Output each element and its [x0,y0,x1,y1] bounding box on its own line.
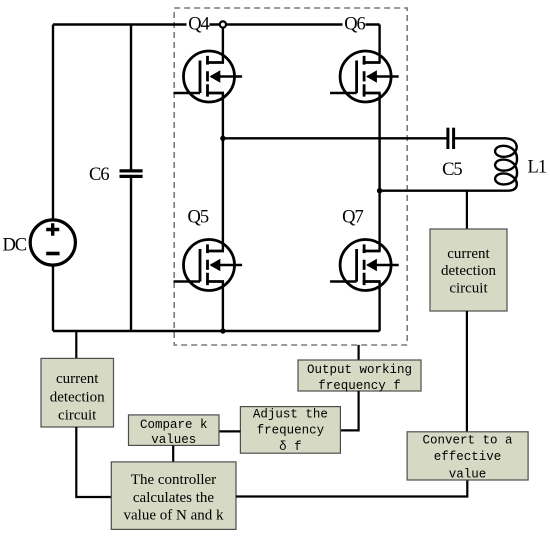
wire Q5 drain [222,138,224,251]
svg-text:Q5: Q5 [187,207,208,227]
wire Q7 source [378,282,380,332]
svg-text:detection: detection [441,263,496,279]
box current detection circuit (right) [430,229,507,311]
svg-text:Q6: Q6 [344,14,365,34]
svg-text:circuit: circuit [449,281,488,297]
box Convert to a effective value [407,432,528,482]
box The controller calculates [111,462,236,530]
dashed inverter bridge box [174,8,407,345]
svg-text:detection: detection [50,389,105,405]
junction node mid left [220,136,225,141]
svg-text:L1: L1 [528,158,547,178]
wire right detection box to convert box [466,311,468,432]
svg-text:current: current [447,246,490,262]
wire mid rail to C5 [223,137,448,139]
wire Q6 source to Q7 drain [378,93,380,251]
svg-text:value: value [449,467,487,481]
inductor L1 [380,138,517,190]
svg-text:C5: C5 [442,160,462,180]
svg-text:values: values [151,433,196,447]
svg-text:value of N and k: value of N and k [124,508,224,524]
svg-text:frequency f: frequency f [318,379,401,393]
label Q6 [343,14,366,34]
transistor Q4 [174,51,243,102]
wire compare box to adjust box [219,430,240,432]
wire Q4 drain [222,25,224,63]
wire bottom rail [53,330,380,332]
capacitor C6 [120,25,143,332]
capacitor C5 [448,128,454,149]
transistor Q5 [174,240,243,291]
wire bottom rail to left detection box [75,331,77,358]
box current detection circuit (left) [41,358,114,427]
wire Q4 source to mid rail [222,93,224,138]
box Adjust the frequency [240,407,340,454]
svg-text:Adjust the: Adjust the [253,408,328,422]
wire C5 to inductor [453,137,505,139]
wire controller box to convert box [236,480,467,497]
svg-text:circuit: circuit [58,408,97,424]
svg-text:frequency: frequency [257,424,325,438]
svg-text:Q7: Q7 [342,207,363,227]
svg-text:current: current [56,371,99,387]
wire Q5 source [222,282,224,332]
wire Q6 drain [378,25,380,63]
wire output box to adjust box [341,391,359,430]
box Compare k values [129,415,220,447]
junction node bottom left leg [220,328,225,333]
wire left detection box to controller box [76,427,111,497]
svg-text:Convert to a: Convert to a [422,433,513,447]
wire load branch down [466,191,468,230]
junction node right leg [377,188,382,193]
wire compare box to controller box [172,445,174,462]
svg-text:δ f: δ f [279,440,302,454]
svg-text:The controller: The controller [131,472,216,488]
svg-text:effective: effective [434,450,502,464]
svg-text:calculates the: calculates the [133,490,215,506]
svg-text:Q4: Q4 [188,14,209,34]
box Output working frequency f [298,360,421,393]
wire bridge to output frequency box [358,345,360,360]
svg-text:DC: DC [2,236,26,256]
svg-text:Output working: Output working [307,363,412,377]
input node terminal [220,21,226,27]
wire top rail [53,23,380,25]
label Q4 [187,14,210,34]
transistor Q7 [330,240,399,291]
wire left branch lower [52,265,54,331]
svg-text:C6: C6 [89,165,109,185]
transistor Q6 [330,51,399,102]
svg-text:Compare k: Compare k [140,418,208,432]
DC source V1 [30,220,75,265]
wire left branch upper [52,25,54,221]
